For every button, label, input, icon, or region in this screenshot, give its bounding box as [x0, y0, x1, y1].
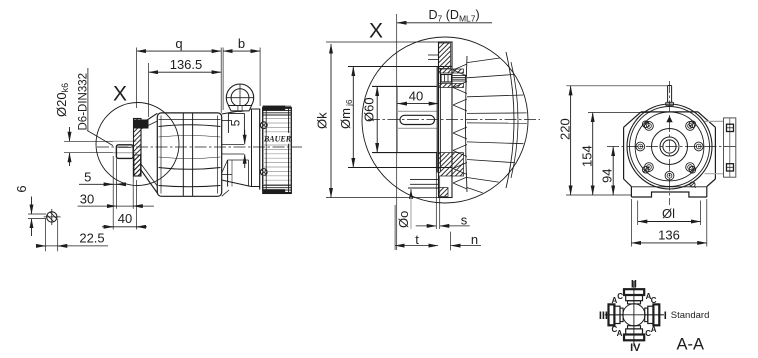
svg-text:30: 30	[80, 191, 94, 206]
svg-text:q: q	[175, 36, 182, 51]
svg-text:C: C	[617, 292, 623, 301]
svg-text:IV: IV	[630, 342, 641, 354]
svg-text:t: t	[415, 232, 419, 247]
svg-text:A: A	[617, 329, 623, 338]
svg-text:Øl: Øl	[662, 206, 675, 221]
svg-text:X: X	[113, 83, 127, 106]
svg-text:136.5: 136.5	[170, 57, 203, 72]
svg-text:A: A	[651, 325, 657, 334]
svg-text:Øk: Øk	[315, 112, 330, 129]
svg-text:Øo: Øo	[396, 211, 411, 228]
svg-text:A-A: A-A	[676, 336, 704, 354]
svg-text:94: 94	[599, 169, 614, 183]
svg-text:5: 5	[84, 170, 91, 185]
svg-text:X: X	[369, 20, 383, 43]
svg-text:BAUER: BAUER	[263, 134, 292, 143]
svg-text:I: I	[664, 310, 667, 322]
svg-text:22.5: 22.5	[79, 231, 104, 246]
svg-text:III: III	[599, 310, 608, 322]
svg-text:s: s	[461, 213, 468, 228]
svg-text:n: n	[471, 232, 478, 247]
svg-text:220: 220	[557, 118, 572, 140]
svg-text:6: 6	[14, 185, 29, 192]
svg-text:Standard: Standard	[671, 310, 710, 321]
svg-text:C: C	[651, 296, 657, 305]
svg-text:40: 40	[118, 211, 132, 226]
svg-text:40: 40	[409, 89, 423, 104]
svg-text:b: b	[238, 36, 245, 51]
svg-text:Ø60: Ø60	[362, 97, 377, 122]
svg-text:136: 136	[658, 227, 680, 242]
svg-text:II: II	[631, 278, 637, 290]
svg-text:154: 154	[579, 145, 594, 167]
